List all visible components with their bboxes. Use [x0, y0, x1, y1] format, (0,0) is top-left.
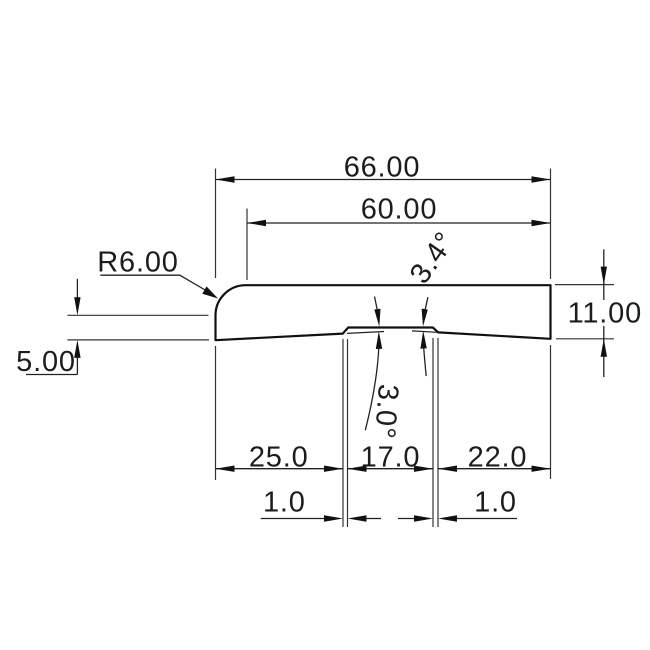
- svg-text:11.00: 11.00: [568, 298, 642, 330]
- svg-text:17.0: 17.0: [361, 442, 421, 474]
- svg-text:60.00: 60.00: [361, 194, 438, 226]
- svg-text:25.0: 25.0: [249, 442, 309, 474]
- svg-text:66.00: 66.00: [344, 152, 421, 184]
- svg-text:5.00: 5.00: [16, 346, 76, 378]
- svg-text:3.0°: 3.0°: [368, 383, 404, 440]
- svg-text:R6.00: R6.00: [97, 247, 178, 279]
- svg-text:1.0: 1.0: [263, 487, 306, 519]
- svg-text:22.0: 22.0: [468, 442, 528, 474]
- svg-text:1.0: 1.0: [474, 487, 517, 519]
